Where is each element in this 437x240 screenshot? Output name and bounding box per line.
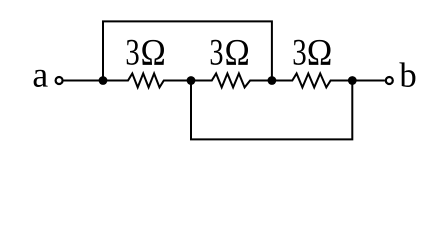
R3 value digit 3	[294, 40, 306, 65]
R1 value digit 3	[127, 40, 139, 65]
R2 value ohm symbol	[226, 40, 248, 65]
wire node 4 to terminal b	[352, 80, 385, 82]
node 2 junction dot	[187, 76, 196, 85]
node 4 junction dot	[348, 76, 357, 85]
resistor R2 3ohm (node 2 to node 3)	[191, 74, 272, 88]
terminal a label	[34, 70, 48, 87]
resistor R1 3ohm (node 1 to node 2)	[103, 74, 191, 88]
R1 value ohm symbol	[142, 40, 164, 65]
resistor R3 3ohm (node 3 to node 4)	[272, 74, 352, 88]
R3 value ohm symbol	[309, 40, 331, 65]
wire top loop node 1 to node 3	[103, 21, 272, 80]
terminal a open circle	[56, 77, 63, 84]
terminal b open circle	[386, 77, 393, 84]
terminal b label	[399, 62, 415, 87]
wire terminal a to node 1	[63, 80, 103, 82]
node 1 junction dot	[99, 76, 108, 85]
R2 value digit 3	[211, 40, 223, 65]
node 3 junction dot	[268, 76, 277, 85]
wire bottom loop node 2 to node 4	[191, 81, 352, 140]
